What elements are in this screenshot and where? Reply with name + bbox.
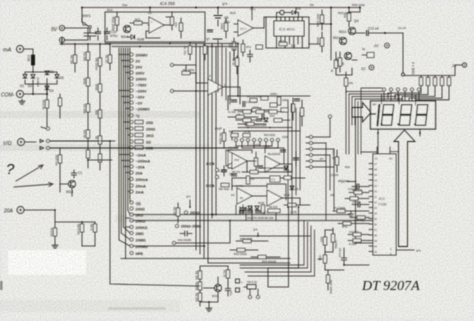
wire verticals mid bbox=[268, 207, 299, 287]
capacitor C2 bbox=[243, 101, 245, 106]
ic2 top pin stubs bbox=[361, 147, 399, 154]
annotation arrow 1 bbox=[16, 165, 43, 181]
contact 2mA bbox=[130, 190, 133, 193]
contacts below zener bbox=[249, 296, 252, 299]
wire cluster to rails bbox=[240, 200, 292, 221]
contact pair AC amp bbox=[171, 64, 174, 67]
annotation arrow 2 bbox=[14, 183, 53, 187]
op-amp U2 (IC1) bbox=[238, 20, 253, 36]
left stubs mA rows bbox=[119, 155, 130, 192]
resistor R9k bbox=[221, 183, 229, 186]
contact 200ohm with resistor bbox=[130, 127, 133, 130]
resistor r32h bbox=[236, 115, 244, 118]
extra wires above display bbox=[355, 88, 403, 154]
op-amp U1a (IC4 358) bbox=[149, 17, 164, 33]
wire bus diagonals to ohm contacts bbox=[119, 198, 130, 246]
crystal X1 bbox=[280, 10, 284, 14]
LCD display DS1 bbox=[371, 101, 436, 129]
wire diode rail bbox=[25, 72, 57, 94]
stub display bottom left bbox=[377, 129, 379, 154]
wire right links bbox=[313, 137, 335, 167]
capacitor C14 bbox=[262, 114, 264, 119]
op-amp U4 ac scale bbox=[208, 79, 223, 95]
junction dots sprinkle bbox=[195, 147, 197, 149]
resistor Rx2 bbox=[198, 282, 201, 290]
contact aca bbox=[216, 169, 219, 172]
resistor R19 bbox=[45, 100, 48, 108]
resistor vert rv1 bbox=[291, 104, 294, 112]
resistor R17 bbox=[335, 157, 338, 165]
wire bus stubs to contacts bbox=[119, 55, 130, 116]
wire xtal bbox=[277, 13, 299, 18]
resistor R40 bbox=[354, 191, 362, 194]
pins IC2 left bbox=[369, 164, 373, 252]
cluster extra horizontals bbox=[228, 150, 288, 186]
wire h2 bbox=[236, 146, 278, 148]
transistor Q6 bbox=[344, 52, 351, 59]
wire cluster frame bbox=[228, 96, 310, 110]
contact 200mA bbox=[130, 178, 133, 181]
wire re bottom bbox=[82, 245, 95, 247]
op-amp T4 bbox=[267, 190, 282, 206]
wire column stubs bbox=[306, 137, 310, 167]
bottom row cluster caps bbox=[239, 211, 244, 213]
diode D6 bbox=[290, 11, 298, 14]
capacitor Cd bbox=[180, 231, 192, 236]
vertical bundle right of cluster bbox=[288, 100, 300, 207]
wire sloped bottom bbox=[197, 285, 200, 287]
white patch bbox=[8, 250, 86, 275]
wire outer loop around IC3 bbox=[266, 17, 309, 48]
resistor R12 bbox=[170, 17, 173, 25]
contact ~750V bbox=[130, 83, 133, 86]
scan mottle bands bbox=[0, 111, 200, 118]
wire right rail bbox=[330, 8, 332, 61]
digit 8 b bbox=[399, 105, 412, 126]
contact 200Mohm bbox=[130, 245, 133, 248]
wire IC3 right to rail bbox=[309, 24, 331, 44]
wires into digit tops bbox=[382, 95, 416, 105]
lower rails bbox=[121, 259, 290, 264]
contact row center bbox=[235, 139, 238, 142]
wire amp out bbox=[146, 17, 172, 38]
contact dca bbox=[216, 176, 219, 179]
capacitor cT bbox=[293, 158, 298, 160]
ground at COM bbox=[24, 93, 47, 95]
block arrow into display left bbox=[352, 103, 371, 123]
contact 20k with resistor bbox=[130, 140, 133, 143]
wire 200Mohm row long bbox=[133, 245, 205, 247]
resistor out bbox=[288, 203, 296, 206]
resistor R28 300k bbox=[320, 15, 323, 23]
small box B3 bbox=[367, 53, 374, 58]
resistor R20 bbox=[58, 155, 61, 163]
resistor R34 bbox=[258, 255, 266, 258]
resistor Rn bbox=[222, 133, 225, 141]
components under T3 bbox=[240, 208, 245, 210]
wire top V+ rail bbox=[82, 8, 360, 23]
resistor 10k right bbox=[344, 78, 347, 86]
capacitor C10 bbox=[98, 28, 107, 40]
wire down-left long bbox=[50, 141, 239, 286]
capacitor C15 bbox=[225, 284, 230, 296]
diode D3 bbox=[45, 71, 49, 75]
stubs display top bbox=[384, 91, 419, 101]
contact 2V bbox=[130, 59, 133, 62]
resistor Ry1 bbox=[226, 270, 229, 278]
resistor R16 bbox=[232, 42, 235, 50]
contact V up bbox=[41, 127, 46, 129]
center vertical bundle bbox=[196, 44, 216, 264]
contact 2k with resistor bbox=[130, 134, 133, 137]
wire down to display area bbox=[402, 33, 404, 73]
resistor R41 bbox=[350, 197, 358, 200]
resistor RN5 bbox=[447, 78, 450, 86]
wire V/ohm feeds bbox=[25, 141, 238, 148]
resistor Rx3 bbox=[198, 293, 201, 301]
feedback wires cluster bbox=[228, 148, 286, 200]
digit minus sign bbox=[372, 113, 376, 115]
cluster row3 bbox=[243, 119, 251, 122]
capacitor C3 bbox=[357, 184, 359, 189]
transistor Q7 bbox=[214, 284, 221, 291]
capacitor C7 vertical bbox=[341, 248, 369, 265]
wires from left to display top bbox=[346, 92, 397, 155]
diode D2 bbox=[31, 75, 35, 79]
extra wires cluster bottom bbox=[236, 205, 264, 221]
cluster extra caps bbox=[264, 146, 269, 148]
wire bottom chain links bbox=[88, 159, 112, 161]
faint scan streak bbox=[108, 307, 166, 310]
wire verticals to ic2 bbox=[326, 118, 334, 220]
contact ~20V bbox=[130, 95, 133, 98]
digit 8 a bbox=[381, 105, 394, 126]
wire T1 out bbox=[247, 161, 292, 172]
digit 8 c bbox=[415, 105, 428, 126]
ground bottom bbox=[206, 306, 212, 311]
resistor row 4x1M top rail bbox=[404, 65, 462, 76]
contact ~2mA bbox=[130, 153, 133, 156]
contact 200ohm2 bbox=[130, 207, 133, 210]
contact degC bbox=[130, 114, 133, 117]
contact 2Kohm bbox=[130, 213, 133, 216]
resistor RN3 bbox=[433, 78, 436, 86]
contact tri1 bbox=[40, 140, 44, 143]
op-amp U5 quarter 358 bbox=[226, 150, 241, 166]
contact ~2V bbox=[130, 101, 133, 104]
IC U6 (IC2 7106) bbox=[373, 154, 396, 255]
small box B4 bbox=[256, 45, 263, 49]
wire battery to switch bbox=[65, 28, 88, 40]
wire h3 bbox=[232, 178, 305, 190]
wire Q collector row bbox=[349, 8, 365, 34]
contact low tap bbox=[176, 225, 179, 228]
capacitor Ck bbox=[247, 50, 252, 62]
contact 200MV bbox=[130, 53, 133, 56]
resistor R43 bbox=[357, 216, 365, 219]
bus vertical lines bbox=[119, 48, 130, 259]
resistor R38 bbox=[326, 275, 329, 283]
capacitor C1 bbox=[71, 170, 76, 178]
resistor R15 bbox=[224, 23, 227, 31]
pins IC3 top bbox=[277, 17, 303, 21]
cluster row4 wire bbox=[238, 127, 292, 129]
capacitor C9 22u bbox=[217, 8, 219, 27]
contact HFE bbox=[130, 252, 133, 255]
wire r37 links bbox=[325, 230, 344, 270]
capacitor C6 bbox=[353, 239, 361, 242]
resistor R13 bbox=[179, 23, 182, 31]
wire top bundle bbox=[105, 44, 238, 97]
pins IC3 bottom bbox=[277, 36, 303, 48]
contact 200k with resistor bbox=[130, 146, 133, 149]
capacitor C4 bbox=[353, 233, 361, 236]
block arrow up into display bbox=[394, 130, 415, 247]
zener VD1 bbox=[247, 285, 256, 290]
ground small bbox=[349, 211, 354, 216]
resistor r33h bbox=[246, 122, 254, 125]
transistor Q5 bbox=[339, 37, 346, 44]
op-amp T3 bbox=[237, 188, 252, 204]
resistor Rk bbox=[235, 58, 238, 66]
diode D1 bbox=[23, 75, 27, 79]
resistor R35 100k bbox=[331, 234, 334, 242]
contact buzzer bbox=[130, 201, 133, 204]
cluster top row comps bbox=[231, 100, 236, 102]
contact 20A bbox=[130, 171, 133, 174]
contact 200k tap bbox=[185, 211, 188, 214]
components between T1 T2 bbox=[254, 158, 257, 166]
resistor Rb 10k pot bbox=[176, 208, 179, 216]
op-amp T2 bbox=[265, 156, 280, 172]
wire 148 to center bbox=[195, 55, 197, 148]
resistor R25 bbox=[279, 42, 287, 45]
more comps lower cluster bbox=[231, 174, 236, 176]
cluster row5 boxes bbox=[231, 134, 238, 137]
digit 1 bbox=[378, 105, 380, 125]
smudge left edge bbox=[0, 281, 3, 290]
contact 20V bbox=[130, 65, 133, 68]
resistor rT bbox=[250, 170, 258, 173]
bundle verticals to bottom bbox=[240, 221, 315, 277]
contact 200M long bbox=[173, 242, 176, 245]
wire opamp to IC3 loop bbox=[264, 17, 266, 28]
transistor Q2 bbox=[68, 180, 75, 187]
stub display bottom right bbox=[419, 129, 421, 136]
transistor Q1 bbox=[123, 25, 130, 32]
resistor Rd bbox=[80, 224, 83, 232]
contact ~200mA bbox=[130, 159, 133, 162]
resistor chain Ra 9M bbox=[86, 52, 89, 60]
left stubs ohm rows bbox=[123, 122, 130, 148]
capacitor C5 bbox=[358, 202, 360, 207]
resistor R33 bbox=[237, 248, 245, 251]
resistor vert rv2 bbox=[300, 108, 303, 116]
extra small comps top bbox=[207, 30, 212, 32]
resistor Re bbox=[93, 224, 96, 232]
resistor R44 bbox=[343, 222, 351, 225]
contact 2Mohm bbox=[130, 232, 133, 235]
resistor R37 bbox=[323, 237, 326, 245]
contact ~200MV bbox=[130, 107, 133, 110]
resistor r31 bbox=[252, 108, 260, 111]
resistor R6 bbox=[73, 55, 76, 63]
buzzer plus minus pads bbox=[236, 279, 240, 283]
resistor Rc bbox=[108, 55, 111, 63]
resistor Ra2 bbox=[182, 71, 190, 74]
resistor R29 10k bbox=[348, 7, 350, 9]
resistor R11 bbox=[134, 21, 142, 24]
resistor R42 1.5M bbox=[337, 209, 345, 212]
contact 20Mohm bbox=[130, 238, 133, 241]
contact 200Kohm bbox=[130, 226, 133, 229]
wire mA to fuse bbox=[24, 49, 33, 55]
wire h1 bbox=[232, 131, 300, 140]
pot VR1 bbox=[323, 255, 326, 263]
diode D5 bbox=[55, 75, 59, 79]
pin numbers IC2 bbox=[374, 162, 377, 254]
capacitor C13 bbox=[221, 170, 226, 172]
wires top cluster verticals bbox=[218, 40, 230, 104]
resistor RN2 bbox=[426, 78, 429, 86]
diode dT bbox=[284, 166, 288, 170]
contact ~20A bbox=[130, 165, 133, 168]
contact 1000V bbox=[130, 77, 133, 80]
wire arrow down bbox=[356, 117, 374, 243]
small box b1 bbox=[270, 103, 277, 107]
fuse F1 0.5A bbox=[31, 55, 34, 65]
resistor R22 200k bbox=[115, 17, 118, 25]
wire V+ at IC2 bottom bbox=[396, 249, 414, 251]
resistor K2 bbox=[338, 58, 341, 66]
contact 200V bbox=[130, 71, 133, 74]
contact tri2 bbox=[40, 147, 44, 150]
resistor R27 300k bbox=[320, 38, 323, 46]
resistor RN1 bbox=[419, 78, 422, 86]
resistor R32 bbox=[243, 239, 251, 242]
decimal points bbox=[381, 123, 383, 125]
op-amp T1 bbox=[232, 153, 247, 169]
bottom cluster: resistor Rx1 bbox=[198, 271, 201, 279]
contact 20mA bbox=[130, 184, 133, 187]
resistor chain Rb bbox=[98, 58, 101, 66]
resistor RN4 bbox=[440, 78, 443, 86]
resistor R23 0.01 bbox=[53, 228, 56, 236]
wire top collector bbox=[60, 37, 110, 44]
contact 20Kohm bbox=[130, 219, 133, 222]
wire loop around input amp bbox=[105, 12, 205, 42]
IC U3 (IC3 4011) bbox=[274, 21, 304, 36]
wire T3 out bbox=[252, 196, 300, 205]
capacitor C12 bbox=[367, 30, 369, 35]
extra junction dots rails bbox=[81, 7, 83, 9]
wire stub top extras bbox=[150, 8, 296, 21]
stubs below contact row bbox=[236, 142, 278, 149]
resistor R21 bbox=[58, 98, 61, 106]
rails to right bbox=[133, 215, 373, 221]
small box b2 bbox=[281, 108, 288, 112]
contact ~200V bbox=[130, 89, 133, 92]
ground near hfe bbox=[52, 243, 58, 248]
diode D4 4148 bbox=[127, 35, 135, 39]
capacitor C8 bbox=[241, 44, 244, 52]
contact 20ohm with resistor bbox=[130, 121, 133, 124]
contact row above display bbox=[383, 88, 386, 91]
resistor R31b bbox=[334, 60, 337, 68]
circles column right bbox=[310, 136, 313, 139]
